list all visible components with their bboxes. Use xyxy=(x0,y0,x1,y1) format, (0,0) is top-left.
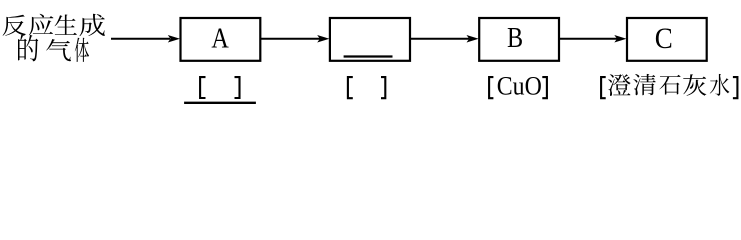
text 应 xyxy=(29,14,54,36)
bracket [ of [CuO] xyxy=(489,77,493,98)
text 石 xyxy=(659,75,680,95)
text 清 xyxy=(633,74,655,95)
text 体 xyxy=(75,38,89,62)
text 成 xyxy=(80,14,105,36)
bracket [ of [澄清石灰水] xyxy=(601,77,606,98)
svg-text:C: C xyxy=(655,23,673,56)
arrow 1: source gas to box A xyxy=(111,35,180,43)
bracket ] under box A xyxy=(235,77,240,98)
text 澄 xyxy=(608,74,630,96)
text 气 xyxy=(46,39,71,61)
arrow 4: box B to box C xyxy=(559,35,627,43)
box B xyxy=(479,18,559,61)
svg-text:B: B xyxy=(507,22,523,53)
bracket ] of [澄清石灰水] xyxy=(733,77,738,98)
text 水 xyxy=(710,74,730,96)
arrow 3: blank box to box B xyxy=(410,35,479,43)
blank underscore line inside second box xyxy=(344,55,393,57)
text 的 (line 2 of source-gas label) xyxy=(18,35,38,62)
box C xyxy=(627,18,707,61)
bracket [ under blank box xyxy=(348,77,353,98)
bracket ] of [CuO] xyxy=(542,77,547,98)
bracket ] under blank box xyxy=(381,77,385,98)
text 反 (line 1 of source-gas label) xyxy=(3,15,27,36)
bracket [ under box A xyxy=(200,77,205,98)
text 灰 xyxy=(683,74,706,96)
text 生 xyxy=(55,15,77,35)
svg-text:CuO: CuO xyxy=(497,73,542,101)
underline below brackets under box A xyxy=(184,102,256,104)
blank box (second box) xyxy=(330,18,410,61)
box A xyxy=(181,18,261,61)
svg-text:A: A xyxy=(211,23,228,54)
arrow 2: box A to blank box xyxy=(260,35,329,43)
